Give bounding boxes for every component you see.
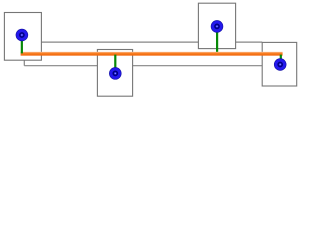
wire net2 horizontal gray lower bbox=[24, 65, 262, 67]
box U2 bbox=[97, 50, 132, 97]
box U3 bbox=[198, 3, 235, 48]
node N3 blue donut bbox=[211, 21, 223, 33]
pin stub node4 green bbox=[280, 55, 282, 60]
box U1 bbox=[4, 13, 41, 61]
wire net2 vertical stub below box U1 bbox=[23, 60, 25, 65]
pin stub node1 green bbox=[21, 40, 23, 53]
pin stub node2 green bbox=[114, 55, 116, 69]
pin stub node3 green bbox=[216, 31, 218, 52]
wire net1 horizontal gray upper bbox=[41, 41, 262, 43]
node N4 blue donut bbox=[274, 59, 286, 71]
box U4 bbox=[262, 42, 297, 86]
node N2 blue donut bbox=[109, 68, 121, 80]
node N1 blue donut bbox=[16, 29, 28, 41]
wire net3 orange band bbox=[21, 52, 283, 56]
